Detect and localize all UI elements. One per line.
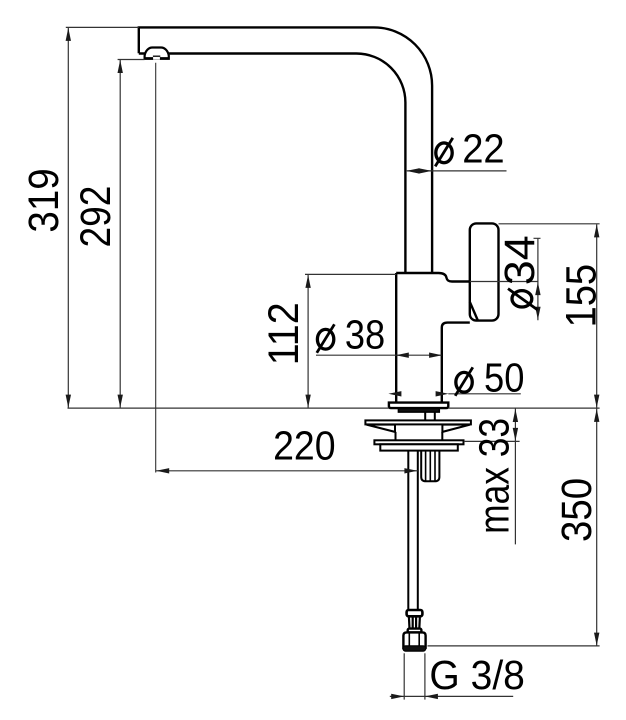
dim 155 top extension [499,223,600,225]
dim 112 vertical line [307,274,309,408]
hex nut body [403,632,425,649]
arrow o38 left [396,353,409,358]
spout outer profile [139,27,432,273]
dim 220 horizontal line [156,470,418,472]
clamp body sides [396,432,443,440]
svg-text:34: 34 [496,235,544,285]
arrow 319 bottom [66,395,71,408]
arrow 220 right [404,468,417,473]
arrow 112 bottom [305,395,310,408]
svg-text:155: 155 [557,264,605,328]
under-counter spreader plate [365,420,471,424]
dim o50 leader [448,393,521,395]
hose crimp collar [407,610,423,616]
dim o22 line [407,170,507,172]
arrow 292 bottom [118,395,123,408]
arrow G38 left [391,694,404,699]
arrow o22 left [406,168,419,173]
dimension linework group [66,27,600,699]
dim G38 line [390,695,513,697]
left clamp wedge [367,425,396,432]
dim 292 top extension [118,59,145,61]
threaded stud ribs [426,451,435,482]
svg-text:319: 319 [20,168,68,232]
arrow 112 top [305,275,310,288]
dimension text group [20,125,605,698]
dim G38 left extension [403,653,405,699]
arrow o50 right [436,391,449,396]
base flange [389,403,448,409]
countertop datum line [68,407,600,409]
dim G38 right extension [424,653,426,699]
arrow 350 top [594,409,599,422]
svg-text:50: 50 [484,355,524,401]
supply hose [408,451,418,610]
handle lever diagonal [470,302,478,321]
svg-text:292: 292 [72,186,120,248]
hex nut face lines [409,632,419,648]
dim o38 line [316,354,442,356]
label o50 diameter symbol [455,367,473,396]
arrow max33 top [513,409,518,422]
svg-text:220: 220 [273,422,336,468]
arrow 155 top [594,224,599,237]
body left edge [395,273,397,403]
gasket under flange [398,409,439,413]
arrow o22 right [419,168,432,173]
arrow 155 bottom [594,395,599,408]
svg-text:G 3/8: G 3/8 [429,652,525,698]
arrow 220 left [156,468,169,473]
arrow G38 right [425,694,438,699]
dim max33 leader [464,440,520,442]
dim 319 vertical line [67,27,69,408]
arrow o34 top [535,282,540,295]
threaded stud [421,451,439,482]
svg-text:350: 350 [553,478,601,542]
dim 350 bottom leader [428,645,600,647]
dim 350 vertical line [596,408,598,646]
arrow 319 top [66,28,71,41]
arrow o34 bottom [535,307,540,320]
label o22 diameter symbol [435,138,453,167]
clamp lower band [380,444,458,450]
svg-text:22: 22 [462,125,505,171]
dim max33 vertical line [514,409,516,545]
arrow 292 top [118,60,123,73]
fitting neck with ribs [409,616,420,628]
clamp nut plate [374,440,463,444]
arrow o38 right [429,353,442,358]
nut top flange [408,629,422,633]
dim o34 extension across handle [470,281,538,283]
svg-text:38: 38 [345,312,385,358]
svg-text:max 33: max 33 [471,418,519,534]
aerator outlet [145,48,169,59]
nut bottom rim [403,646,426,651]
dim 112 top extension [305,273,396,275]
arrowheads group [66,28,600,699]
arrow max33 bottom [513,428,518,441]
handle cylinder [470,223,499,320]
dim o34 vertical line [534,238,541,320]
right clamp wedge [442,425,470,432]
arrow 350 bottom [594,633,599,646]
outlet centerline [155,63,157,473]
dim 319 top extension [66,26,139,28]
label o38 diameter symbol [317,324,335,353]
mounting neck through counter [425,412,435,420]
dim 292 vertical line [119,60,121,409]
body right lower edge with boss corner [442,323,470,403]
spout inner profile [139,54,406,274]
label o34 diameter symbol [508,289,537,310]
dim 155 vertical line [596,224,598,408]
arrow o50 left [388,391,401,396]
faucet outline group [139,27,499,651]
body top edge and right step [396,273,470,282]
svg-text:112: 112 [260,302,308,365]
